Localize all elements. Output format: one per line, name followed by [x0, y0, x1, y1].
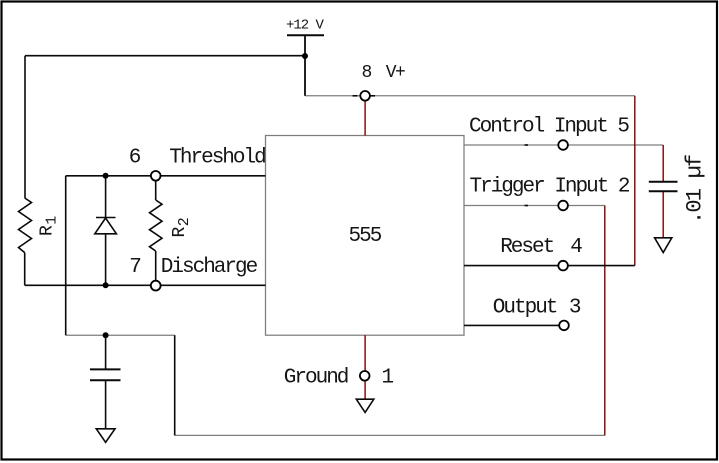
- svg-text:6: 6: [129, 146, 141, 169]
- svg-text:Discharge: Discharge: [161, 256, 258, 279]
- svg-text:Control Input 5: Control Input 5: [469, 115, 629, 138]
- svg-text:Output: Output: [493, 297, 557, 320]
- svg-text:Ground: Ground: [284, 366, 348, 389]
- svg-text:Reset: Reset: [500, 236, 553, 259]
- svg-text:Trigger Input 2: Trigger Input 2: [470, 175, 630, 198]
- svg-text:R2: R2: [170, 218, 193, 237]
- svg-text:+12 V: +12 V: [286, 18, 324, 34]
- svg-text:R1: R1: [38, 216, 61, 236]
- svg-text:7: 7: [129, 256, 140, 279]
- svg-text:555: 555: [349, 225, 382, 248]
- svg-text:1: 1: [382, 366, 394, 389]
- svg-text:.01 µf: .01 µf: [683, 155, 708, 224]
- svg-text:Threshold: Threshold: [169, 146, 265, 169]
- svg-text:V+: V+: [386, 63, 405, 83]
- svg-text:3: 3: [569, 297, 581, 320]
- svg-text:4: 4: [570, 236, 582, 259]
- svg-text:8: 8: [362, 63, 372, 83]
